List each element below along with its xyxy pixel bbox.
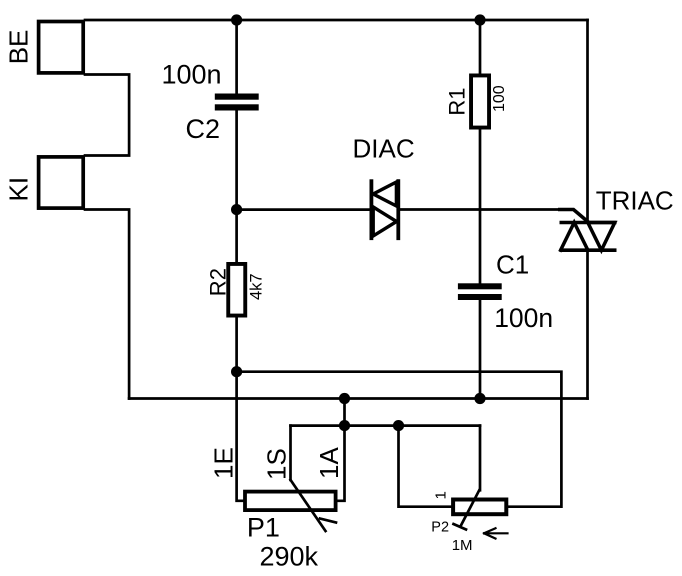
svg-text:C2: C2: [186, 114, 221, 144]
svg-text:100: 100: [491, 85, 508, 112]
wire R1 bottom lead to C1: [479, 130, 482, 284]
node rail C 1A junction: [339, 420, 350, 431]
svg-text:P1: P1: [247, 513, 280, 543]
node C2 R2 DIAC junction: [231, 204, 242, 215]
wire R2 top lead: [235, 210, 238, 263]
node rail B C1 junction: [474, 393, 485, 404]
wire DIAC left: [237, 208, 370, 211]
wire top rail: [85, 19, 588, 22]
potentiometer P2: [453, 500, 506, 515]
wire BE to KI link: [85, 75, 129, 156]
svg-text:1S: 1S: [262, 448, 292, 480]
wire C1 bottom lead: [479, 300, 482, 399]
wire right vertical to TRIAC: [586, 20, 589, 223]
svg-text:R2: R2: [206, 268, 231, 296]
wire P2 left lead: [399, 426, 454, 507]
wire TRIAC bottom vertical: [586, 250, 589, 398]
svg-text:DIAC: DIAC: [353, 134, 415, 164]
svg-text:P2: P2: [431, 520, 449, 536]
P2 wiper: [461, 490, 480, 526]
svg-text:290k: 290k: [260, 541, 319, 571]
wire rail C: [291, 424, 481, 427]
wire rail A to P2 right: [237, 372, 562, 507]
resistor R1: [471, 75, 489, 127]
svg-text:1: 1: [433, 491, 450, 499]
svg-text:BE: BE: [4, 30, 34, 65]
P1 wiper: [291, 480, 326, 531]
wire DIAC to TRIAC gate: [400, 208, 560, 211]
svg-text:100n: 100n: [494, 303, 553, 333]
arrow wiper direction: [484, 528, 508, 538]
svg-text:TRIAC: TRIAC: [596, 186, 674, 216]
svg-text:1A: 1A: [314, 447, 344, 479]
svg-text:1E: 1E: [208, 447, 238, 479]
wire C2 top lead: [235, 20, 238, 94]
svg-text:4k7: 4k7: [248, 273, 266, 300]
node R2 bottom junction: [231, 366, 242, 377]
svg-text:100n: 100n: [162, 59, 222, 89]
wire R1 top lead: [479, 20, 482, 75]
node top C2 junction: [231, 14, 242, 25]
svg-text:1M: 1M: [452, 537, 473, 554]
wire 1A vertical: [336, 399, 345, 501]
capacitor C1: [458, 283, 502, 300]
P2 wiper tick: [454, 524, 467, 530]
resistor R2: [228, 264, 245, 316]
capacitor C2: [215, 94, 259, 111]
node rail C P2 junction: [393, 420, 404, 431]
potentiometer P1: [245, 492, 336, 511]
wire 1S vertical: [289, 426, 292, 480]
node top R1 junction: [474, 14, 485, 25]
connector BE: [39, 22, 84, 73]
connector KI: [39, 157, 84, 208]
wire R2 bottom lead: [235, 317, 238, 372]
wire bottom rail B: [129, 397, 587, 400]
svg-text:KI: KI: [4, 177, 34, 202]
svg-text:C1: C1: [496, 250, 529, 280]
wire KI bottom to left rail: [85, 210, 129, 399]
wire 1E vertical: [237, 372, 245, 501]
wire C2 bottom lead: [235, 110, 238, 209]
P1 wiper tick: [320, 519, 336, 523]
svg-text:R1: R1: [445, 87, 470, 115]
triac symbol: [560, 210, 615, 251]
diac D1: [371, 181, 398, 238]
node rail B 1A junction: [339, 393, 350, 404]
wire P2 wiper feed: [479, 426, 482, 491]
